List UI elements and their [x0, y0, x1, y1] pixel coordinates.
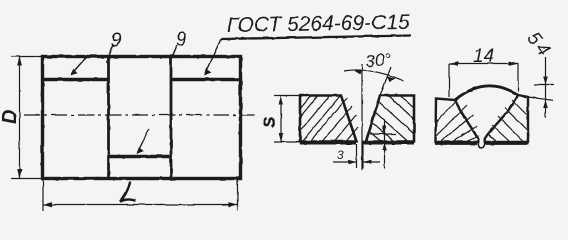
label L drawn as handwritten stroke — [120, 183, 135, 202]
root gap right extension line — [362, 144, 364, 168]
reinforcement height: cap level extension line — [534, 84, 554, 86]
weld seam line lower-center — [109, 155, 170, 158]
reinforcement height: vertical dimension line with arrows — [545, 57, 547, 118]
root face extension line — [370, 133, 396, 135]
left plate outline — [436, 99, 479, 143]
svg-text:14: 14 — [473, 46, 494, 67]
root face vertical dimension line with arrows — [384, 121, 386, 168]
weld root protrusion — [478, 141, 484, 148]
weld tick arrow on lower-center seam — [138, 129, 150, 153]
right plate outline — [366, 96, 414, 142]
dimension L: right extension line — [237, 180, 239, 211]
leader line of label 9 (right) — [171, 45, 178, 62]
root gap dimension line left with arrow — [333, 161, 356, 163]
inner vertical line right (central gap right edge) — [170, 57, 173, 178]
svg-text:9: 9 — [176, 30, 187, 51]
title leader line with arrow to right weld — [205, 39, 221, 73]
groove vertical reference line — [361, 64, 363, 170]
weld tick arrow on upper-left seam — [71, 58, 86, 75]
weld cap (reinforcement arc) — [455, 86, 518, 100]
svg-text:s: s — [257, 116, 280, 128]
reinforcement height: plate level extension line — [528, 97, 553, 100]
root gap left extension line — [356, 144, 358, 168]
root gap dimension line right with arrow — [363, 161, 380, 163]
left plate bottom thick edge — [300, 141, 356, 144]
left plate hatching — [436, 99, 479, 142]
dimension D: bottom extension line — [11, 178, 42, 180]
svg-text:ГОСТ 5264-69-С15: ГОСТ 5264-69-С15 — [227, 11, 410, 37]
inner vertical line left (central gap left edge) — [107, 57, 110, 178]
right plate bottom thick edge — [485, 141, 529, 144]
right plate hatching — [370, 96, 414, 142]
left plate outline — [300, 96, 357, 142]
bevel angle extension line — [380, 67, 391, 96]
leader line of label 9 (left) — [107, 45, 114, 63]
30 degree dimension arc with arrows — [344, 70, 404, 81]
dimension L: left extension line — [42, 180, 44, 211]
dimension 14: right extension line — [517, 64, 519, 92]
centerline (dash-dot axis) — [24, 114, 255, 116]
svg-text:D: D — [0, 110, 21, 124]
dimension 14: horizontal dimension line with arrows — [449, 63, 518, 65]
right plate outline — [485, 95, 528, 142]
svg-text:3: 3 — [337, 148, 344, 162]
right plate hatching — [488, 100, 528, 142]
dimension s: top extension line — [274, 95, 299, 97]
dimension L: horizontal dimension line with arrows — [43, 204, 237, 206]
weld seam line upper-left — [43, 78, 108, 81]
dimension s: bottom extension line — [274, 141, 299, 143]
left plate bottom thick edge — [435, 141, 477, 144]
dimension s: vertical dimension line with arrows — [280, 96, 282, 143]
svg-text:30°: 30° — [365, 50, 392, 71]
left view outer rectangle (part contour) — [43, 57, 241, 179]
weld seam line upper-right — [171, 78, 240, 81]
dimension 14: left extension line — [448, 64, 450, 98]
title underline — [221, 36, 411, 40]
dimension D: top extension line — [11, 56, 42, 58]
dimension D: vertical dimension line with arrows — [19, 57, 21, 178]
left plate hatching — [300, 96, 358, 145]
right plate bottom thick edge — [362, 141, 414, 144]
svg-text:9: 9 — [111, 30, 122, 52]
